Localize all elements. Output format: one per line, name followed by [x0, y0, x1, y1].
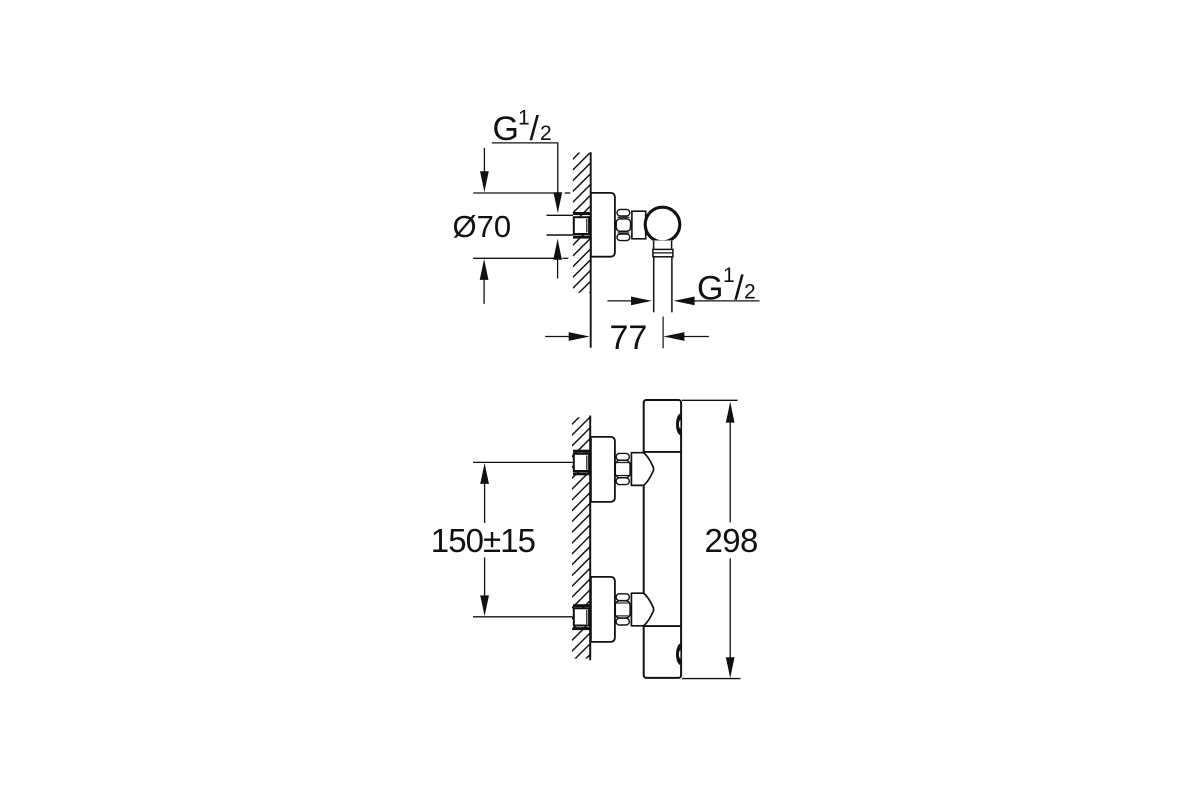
svg-text:G: G — [697, 270, 723, 308]
hex nut (top view) — [617, 209, 630, 216]
upper handle arc — [676, 414, 680, 436]
arrow 298 up — [726, 402, 735, 423]
dimension 298 line — [729, 421, 731, 658]
lower escutcheon (front view) — [591, 577, 615, 642]
arrow 77 right (points left at centerline) — [663, 332, 684, 341]
arrow 150±15 down — [480, 595, 489, 616]
upper union square nut (front view) — [574, 454, 589, 471]
svg-text:2: 2 — [744, 280, 756, 303]
lower union square nut (front view) — [574, 608, 589, 625]
svg-text:298: 298 — [705, 522, 758, 559]
leader line G 1/2 top — [492, 143, 558, 196]
dimension G 1/2 right lines — [607, 300, 759, 302]
wall line (front view) — [589, 416, 591, 661]
dimension 150±15 line — [484, 483, 486, 598]
svg-text:77: 77 — [610, 319, 648, 357]
lower hex nut (front view) — [616, 594, 629, 601]
wall hatching (front view) — [572, 407, 590, 673]
svg-text:1: 1 — [723, 264, 735, 287]
union square nut (top view) — [574, 217, 589, 234]
lower handle arc — [676, 644, 680, 666]
union flange bands (top view) — [573, 212, 590, 215]
extension line body top — [682, 399, 738, 401]
svg-text:Ø70: Ø70 — [453, 209, 512, 244]
wall line (top view) — [590, 152, 592, 347]
arrow 298 down — [726, 657, 735, 678]
extension line body bottom — [682, 678, 741, 680]
svg-text:2: 2 — [540, 122, 552, 145]
outlet collar (top view) — [653, 249, 673, 256]
arrow Ø70 upper — [480, 171, 489, 192]
dimension 77 lines — [545, 336, 709, 338]
arrow 150±15 up — [480, 463, 489, 484]
arrow Ø70 lower — [480, 259, 489, 280]
outlet neck (top view) — [654, 241, 672, 250]
dimension label G 1/2 (top) — [493, 106, 552, 147]
upper union flange bands (front view) — [573, 450, 590, 453]
escutcheon rosette (top view) — [591, 193, 615, 257]
arrow at pipe right edge — [674, 297, 695, 306]
supply pipe stub (top view) — [547, 215, 574, 235]
body cap joint lower — [644, 625, 681, 627]
dimension lines Ø70 — [473, 148, 570, 304]
arrow at pipe left edge — [631, 297, 652, 306]
arrow 77 left (points right at wall) — [569, 332, 590, 341]
svg-text:150±15: 150±15 — [431, 522, 535, 559]
upper escutcheon (front view) — [591, 437, 615, 502]
wall hatching (top view) — [573, 142, 590, 310]
extension line upper connection — [473, 461, 573, 463]
dimension label G 1/2 (right) — [697, 264, 756, 307]
upper hex nut (front view) — [616, 453, 629, 460]
arrow to union bottom edge — [553, 239, 562, 260]
svg-text:G: G — [493, 110, 519, 148]
mixer body bar — [644, 400, 681, 678]
extension line lower connection — [473, 616, 573, 618]
svg-text:/: / — [530, 110, 540, 148]
svg-text:/: / — [734, 270, 744, 308]
upper inlet cone — [631, 453, 653, 486]
valve connector block (top view) — [632, 211, 646, 239]
lower union flange bands (front view) — [573, 604, 590, 607]
pipe centerline extension — [662, 317, 664, 349]
valve body circle (top view) — [645, 207, 680, 242]
outlet pipe (top view) — [654, 257, 672, 313]
arrow to union top edge — [553, 192, 562, 213]
lower inlet cone — [631, 593, 653, 626]
svg-text:1: 1 — [518, 106, 530, 129]
body cap joint upper — [644, 451, 681, 453]
